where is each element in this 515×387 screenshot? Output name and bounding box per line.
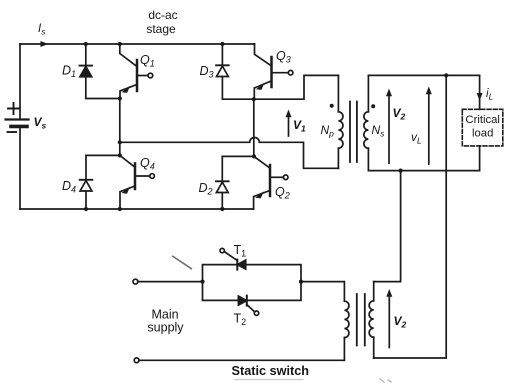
node bottom rail D2 (220, 207, 224, 211)
node D right output (252, 97, 256, 101)
transistor Q3 (254, 44, 293, 99)
wire mid branch down (374, 171, 401, 282)
wire E to D2 (222, 155, 254, 157)
svg-text:stage: stage (146, 22, 176, 36)
terminal main supply lower (134, 358, 139, 363)
thyristor T2 (234, 296, 259, 327)
svg-text:T1: T1 (234, 243, 247, 259)
svg-text:Ns: Ns (372, 123, 386, 139)
transistor Q2 (254, 156, 290, 209)
diode D2 (199, 156, 229, 209)
node output top bus (444, 73, 448, 77)
critical load box (462, 109, 503, 146)
svg-text:Critical: Critical (465, 114, 500, 126)
svg-text:Q3: Q3 (276, 49, 291, 65)
wire output top (368, 74, 479, 76)
wire D1 branch (86, 44, 120, 99)
node top rail D3 (220, 42, 224, 46)
node top rail Q1 (118, 42, 122, 46)
wire C to D4 (86, 154, 120, 156)
transformer T2 core (357, 294, 365, 346)
transformer T1 primary winding Np (321, 75, 343, 168)
svg-text:D1: D1 (62, 64, 76, 80)
node A left leg mid (118, 96, 122, 100)
wire right output to primary top (254, 75, 339, 99)
transformer T2 secondary winding (369, 282, 374, 358)
node output bottom to bypass transformer (399, 169, 403, 173)
svg-text:Static switch: Static switch (232, 364, 310, 378)
svg-text:Vs: Vs (34, 115, 47, 131)
transformer T1 secondary winding Ns (364, 75, 385, 170)
wire main supply lower (139, 359, 344, 361)
transformer T2 primary winding (301, 282, 349, 361)
svg-text:V2: V2 (394, 314, 407, 330)
node B left output (118, 140, 122, 144)
wire static switch frame (203, 265, 302, 301)
leader mark (173, 256, 192, 268)
svg-text:iL: iL (486, 88, 494, 102)
label main supply (147, 308, 184, 335)
node E (252, 154, 256, 158)
node C (118, 153, 122, 157)
diode D3 (200, 44, 229, 99)
wire bottom rail (20, 208, 254, 210)
svg-text:Is: Is (38, 23, 46, 37)
node bottom rail D4 (84, 207, 88, 211)
node static switch left (200, 280, 204, 284)
svg-text:supply: supply (147, 321, 184, 335)
svg-text:vL: vL (411, 130, 422, 146)
svg-text:Q2: Q2 (275, 185, 290, 201)
wire A to B (119, 99, 121, 143)
transistor Q4 (120, 155, 155, 209)
node top rail D1 (84, 42, 88, 46)
node static switch right (299, 280, 303, 284)
wire battery branch lower (19, 128, 21, 209)
wire left output with hop to primary bottom (120, 138, 339, 169)
thyristor T1 (220, 243, 246, 270)
current arrow Is (38, 23, 48, 47)
wire battery branch upper (19, 44, 21, 118)
label dc-ac stage (146, 8, 177, 36)
smudge marks (235, 379, 303, 381)
diode D1 (62, 64, 92, 80)
wire D down to E (253, 99, 255, 156)
voltage arrow V1 (286, 110, 307, 137)
wire B down to C (119, 142, 121, 155)
diode D4 (62, 155, 92, 209)
svg-text:dc-ac: dc-ac (148, 8, 177, 22)
svg-text:D3: D3 (200, 64, 214, 80)
transformer T1 core (350, 102, 357, 163)
wire load branch bottom (479, 146, 481, 171)
battery Vs (6, 103, 47, 132)
wire right bus down (374, 75, 447, 358)
wire D3 to node D (222, 98, 253, 100)
svg-text:Np: Np (321, 123, 335, 139)
voltage arrow vL (411, 87, 432, 165)
node bottom rail Q4 (118, 207, 122, 211)
svg-text:V2: V2 (393, 106, 406, 122)
svg-text:load: load (472, 128, 493, 140)
wire output bottom (368, 170, 479, 172)
svg-text:V1: V1 (293, 118, 306, 134)
svg-text:D4: D4 (62, 179, 76, 195)
svg-text:T2: T2 (234, 312, 247, 328)
transistor Q1 (120, 44, 155, 99)
voltage arrow V2 (386, 89, 406, 164)
wire top rail (20, 43, 255, 45)
wire load branch top with current arrow iL (477, 75, 494, 109)
voltage arrow V2 lower (386, 289, 406, 348)
svg-text:D2: D2 (199, 181, 213, 197)
svg-text:Q4: Q4 (140, 156, 155, 172)
terminal main supply upper (133, 279, 138, 284)
wire main supply upper (138, 281, 203, 283)
svg-text:Q1: Q1 (140, 53, 155, 69)
svg-text:Main: Main (151, 308, 178, 322)
